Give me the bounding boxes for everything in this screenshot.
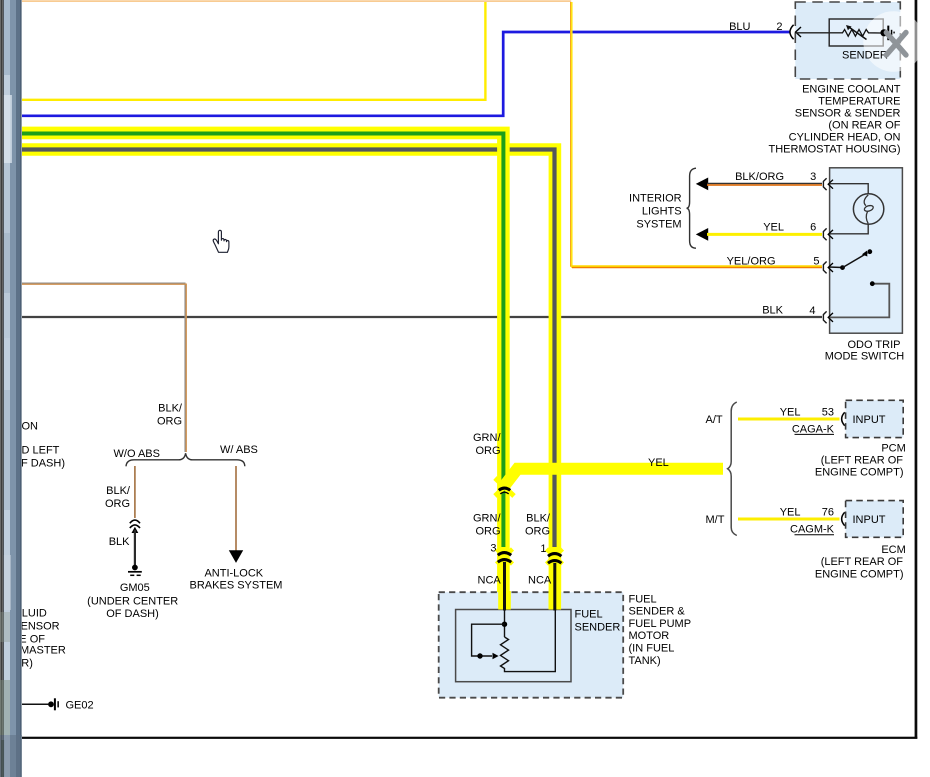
svg-text:LIGHTS: LIGHTS: [642, 205, 682, 217]
pin 4 terminal: [823, 311, 833, 323]
svg-text:FUEL PUMP: FUEL PUMP: [629, 618, 692, 630]
svg-text:GRN/: GRN/: [473, 512, 501, 524]
svg-text:INPUT: INPUT: [853, 514, 886, 526]
pin 3 fuel sender connector: [490, 543, 512, 565]
arrow YEL pin6: [696, 228, 708, 241]
svg-text:INPUT: INPUT: [853, 414, 886, 426]
svg-text:E OF: E OF: [19, 633, 45, 645]
cursor hand pointer: [213, 230, 229, 252]
svg-text:BLK/: BLK/: [158, 403, 183, 415]
ECM terminal: [842, 512, 845, 525]
svg-text:NCA: NCA: [478, 575, 502, 587]
pin 6 terminal: [823, 228, 833, 240]
svg-text:BLK/: BLK/: [526, 512, 551, 524]
svg-text:YEL/ORG: YEL/ORG: [727, 255, 776, 267]
close button: [863, 11, 924, 72]
wire BLK to ground: [134, 530, 136, 565]
wire BLK/ORG brown L-run left: [22, 283, 185, 452]
svg-text:A/T: A/T: [706, 414, 723, 426]
wire YEL/ORG to pin 5: [571, 2, 822, 266]
wire BLK/ORG w/o-abs branch: [134, 466, 136, 518]
wire YEL thin horizontal top: [22, 2, 485, 100]
svg-text:INTERIOR: INTERIOR: [629, 192, 682, 204]
pin 2 terminal: [790, 25, 801, 39]
svg-text:W/ ABS: W/ ABS: [220, 444, 258, 456]
svg-text:THERMOSTAT HOUSING): THERMOSTAT HOUSING): [769, 144, 901, 156]
svg-text:SENDER: SENDER: [575, 622, 621, 634]
ODO box: [830, 168, 903, 333]
svg-text:BLK: BLK: [109, 536, 130, 548]
svg-text:YEL: YEL: [780, 507, 801, 519]
wire YEL pin6: [707, 233, 822, 236]
svg-text:GM05: GM05: [120, 582, 150, 594]
svg-text:SYSTEM: SYSTEM: [636, 218, 681, 230]
wire NCA segments inside fuel box: [498, 591, 511, 610]
svg-text:3: 3: [810, 171, 816, 183]
close X: [886, 33, 906, 56]
sidebar strip: [0, 0, 22, 777]
svg-text:M/T: M/T: [706, 514, 725, 526]
brace A/T M/T: [728, 402, 737, 536]
svg-text:YEL: YEL: [780, 407, 801, 419]
svg-text:PCM: PCM: [881, 443, 905, 455]
svg-text:NCA: NCA: [528, 575, 552, 587]
fuel sender internals: [472, 610, 556, 672]
svg-text:4: 4: [809, 305, 815, 317]
svg-text:SENDER &: SENDER &: [629, 606, 686, 618]
wire NCA right: [553, 563, 556, 612]
connector GM05 branch: [130, 520, 140, 523]
brace W/O-W/ ABS: [126, 453, 245, 466]
svg-text:5: 5: [813, 256, 819, 268]
coolant sensor dashed box: [795, 2, 900, 79]
wire BLU: [22, 32, 790, 116]
svg-text:6: 6: [810, 222, 816, 234]
odo switch pin4 contact: [830, 284, 889, 318]
svg-text:53: 53: [822, 407, 834, 419]
svg-text:LUID: LUID: [22, 608, 47, 620]
sender resistor: [843, 30, 882, 37]
svg-text:YEL: YEL: [763, 222, 784, 234]
svg-text:OF DASH): OF DASH): [106, 608, 159, 620]
svg-text:CAGA-K: CAGA-K: [792, 423, 835, 435]
svg-text:F DASH): F DASH): [21, 458, 65, 470]
wire BLK long horizontal (pin 4 run): [22, 316, 822, 318]
svg-text:ORG: ORG: [105, 498, 130, 510]
pin 5 terminal: [823, 262, 833, 274]
lamp bulb: [853, 194, 883, 224]
svg-text:BLK: BLK: [762, 305, 783, 317]
svg-text:ODO TRIP: ODO TRIP: [848, 339, 901, 351]
odo internal pin3 to lamp: [830, 184, 868, 195]
pin 1 fuel sender connector: [540, 543, 562, 564]
svg-text:D LEFT: D LEFT: [22, 445, 60, 457]
sender inner box: [829, 19, 883, 46]
svg-text:ON: ON: [22, 421, 39, 433]
svg-text:MOTOR: MOTOR: [629, 630, 670, 642]
svg-text:1: 1: [540, 543, 546, 555]
svg-text:SENDER: SENDER: [842, 49, 888, 61]
odo internal lamp to pin6: [830, 224, 868, 234]
svg-text:GRN/: GRN/: [473, 432, 501, 444]
wire YEL thick to PCM/ECM: [505, 469, 723, 485]
svg-text:(IN FUEL: (IN FUEL: [629, 643, 675, 655]
brace interior lights: [687, 168, 697, 248]
svg-text:YEL: YEL: [648, 457, 669, 469]
svg-text:GE02: GE02: [66, 700, 94, 712]
svg-text:ENGINE COOLANT: ENGINE COOLANT: [802, 84, 901, 96]
svg-text:2: 2: [776, 21, 782, 33]
svg-text:MASTER: MASTER: [20, 645, 66, 657]
sender variable arrow: [849, 27, 867, 40]
wire GRN/ORG band (yellow w/ green core): [22, 133, 503, 610]
sender case ground: [887, 26, 889, 41]
ground GE02: [22, 698, 59, 710]
svg-text:ANTI-LOCK: ANTI-LOCK: [204, 567, 263, 579]
svg-text:ENGINE COMPT): ENGINE COMPT): [815, 466, 904, 478]
svg-text:CAGM-K: CAGM-K: [790, 524, 835, 536]
wire BLK/ORG pin3: [707, 183, 822, 185]
ground GM05: [128, 565, 142, 576]
odo switch pin5: [829, 249, 873, 270]
svg-text:(ON REAR OF: (ON REAR OF: [828, 120, 900, 132]
svg-text:(LEFT REAR OF: (LEFT REAR OF: [821, 556, 904, 568]
svg-text:(UNDER CENTER: (UNDER CENTER: [87, 595, 178, 607]
svg-text:W/O ABS: W/O ABS: [114, 448, 160, 460]
svg-text:TANK): TANK): [629, 655, 661, 667]
svg-text:FUEL: FUEL: [629, 593, 657, 605]
sender wire: [796, 32, 843, 34]
splice on GRN/ORG wire: [495, 478, 514, 496]
wire BLK/ORG w/-abs branch: [235, 466, 237, 552]
ECM INPUT box: [846, 501, 904, 538]
svg-text:ORG: ORG: [157, 416, 182, 428]
svg-text:BLU: BLU: [729, 21, 750, 33]
svg-text:FUEL: FUEL: [575, 609, 603, 621]
PCM INPUT box: [846, 400, 904, 437]
fuel pump dashed box: [439, 592, 624, 698]
svg-text:BLK/: BLK/: [106, 485, 131, 497]
svg-text:BRAKES SYSTEM: BRAKES SYSTEM: [190, 580, 283, 592]
arrow to anti-lock brakes: [229, 550, 243, 563]
wire YEL to PCM: [738, 418, 840, 421]
svg-text:(LEFT REAR OF: (LEFT REAR OF: [821, 454, 904, 466]
svg-text:ORG: ORG: [475, 445, 500, 457]
svg-text:CYLINDER HEAD, ON: CYLINDER HEAD, ON: [789, 132, 901, 144]
svg-text:BLK/ORG: BLK/ORG: [735, 171, 784, 183]
svg-text:3: 3: [490, 543, 496, 555]
wire BLK/ORG band (yellow w/ gray core): [22, 150, 555, 611]
wire YEL/ORG top edge: [22, 0, 571, 2]
svg-text:76: 76: [822, 507, 834, 519]
svg-text:ECM: ECM: [881, 544, 905, 556]
arrow BLK/ORG pin3: [696, 178, 708, 191]
wire NCA left: [503, 562, 506, 612]
pin 3 terminal: [823, 178, 833, 190]
svg-text:MODE SWITCH: MODE SWITCH: [825, 350, 904, 362]
lamp filament: [864, 195, 868, 206]
wire YEL to ECM: [738, 518, 840, 521]
svg-text:ORG: ORG: [475, 525, 500, 537]
svg-text:TEMPERATURE: TEMPERATURE: [818, 96, 900, 108]
svg-text:ORG: ORG: [525, 525, 550, 537]
svg-text:SENSOR & SENDER: SENSOR & SENDER: [795, 108, 901, 120]
svg-text:ENGINE COMPT): ENGINE COMPT): [815, 569, 904, 581]
svg-text:R): R): [21, 657, 33, 669]
svg-text:ENSOR: ENSOR: [21, 621, 60, 633]
page right border: [915, 0, 918, 739]
sender output node: [880, 29, 887, 36]
fuel sender inner box: [456, 610, 571, 682]
page bottom border: [22, 737, 917, 739]
PCM terminal: [842, 412, 845, 425]
